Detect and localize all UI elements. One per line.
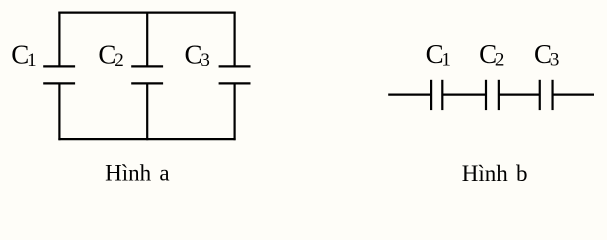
svg-text:C3: C3 xyxy=(185,40,210,71)
wire series left lead (Hinh b) xyxy=(388,93,431,95)
svg-text:Hình a: Hình a xyxy=(105,160,169,185)
svg-text:C1: C1 xyxy=(426,39,451,70)
wire left branch upper xyxy=(58,12,60,67)
wire middle branch upper xyxy=(146,12,148,67)
capacitor C2 xyxy=(131,66,163,83)
capacitor C1 (series) xyxy=(431,80,442,110)
wire top bus (Hinh a) xyxy=(58,12,235,14)
wire right branch lower xyxy=(234,83,236,140)
svg-text:C3: C3 xyxy=(534,39,559,70)
wire between C2 and C3 xyxy=(499,93,540,95)
capacitor C3 xyxy=(219,66,251,83)
svg-text:Hình b: Hình b xyxy=(462,161,528,186)
wire bottom bus (Hinh a) xyxy=(58,138,235,140)
capacitor C1 xyxy=(43,66,75,83)
capacitor C3 (series) xyxy=(540,80,553,110)
svg-text:C1: C1 xyxy=(11,40,36,71)
svg-text:C2: C2 xyxy=(479,39,504,70)
wire right branch upper xyxy=(234,12,236,67)
wire series right lead (Hinh b) xyxy=(553,93,594,95)
wire between C1 and C2 xyxy=(442,93,486,95)
capacitor C2 (series) xyxy=(486,80,499,110)
svg-text:C2: C2 xyxy=(98,40,123,71)
wire left branch lower xyxy=(58,83,60,140)
wire middle branch lower xyxy=(146,83,148,140)
